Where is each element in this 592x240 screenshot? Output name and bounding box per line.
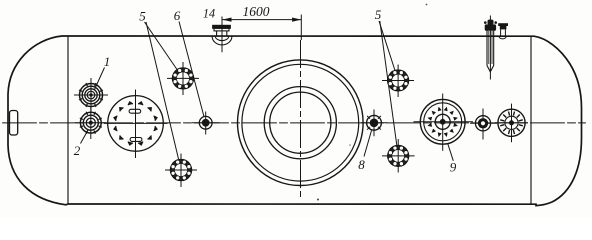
svg-text:2: 2 (74, 143, 81, 158)
leader line 6 to small nozzle (179, 22, 204, 117)
left head stub nozzle (10, 111, 18, 136)
bolted flange (5) lower left (165, 154, 197, 188)
small nozzle (6) on centerline (192, 112, 220, 135)
leader line for label 9 (448, 144, 454, 161)
bolted flange (5) upper right (382, 65, 414, 98)
level gauge tube (dipstick) top right (484, 16, 497, 80)
flange 2 (75, 107, 107, 140)
svg-text:5: 5 (375, 7, 382, 22)
svg-text:1: 1 (104, 54, 111, 69)
svg-text:5: 5 (139, 9, 146, 24)
manhole cover with bolt marks (104, 90, 168, 159)
leader line for label 2 (81, 130, 89, 144)
svg-text:6: 6 (174, 8, 181, 23)
leader line 5 to right lower flange (380, 21, 397, 145)
left head weld seam (67, 36, 69, 204)
dimension left arrowhead (222, 18, 231, 22)
tank horizontal centerline (3, 122, 586, 124)
leader line for label 1 (95, 68, 105, 90)
bolted flange (5) upper left (167, 62, 199, 95)
dimension 1600 (222, 15, 301, 41)
leader line 5 to right upper flange (379, 21, 395, 71)
leader line 5 to upper flange (145, 22, 178, 70)
right head weld seam (530, 36, 532, 204)
filler cap fitting (dark) right of dipstick (498, 23, 508, 39)
leader line 5 to lower flange (146, 22, 179, 159)
dimension right extension line (300, 15, 302, 41)
svg-text:1600: 1600 (243, 4, 270, 19)
manhole cover bottom slot (130, 138, 142, 142)
tank shell outline (8, 36, 582, 206)
gear-toothed flange right (495, 104, 528, 143)
fitting 14 (safety valve nozzle, side view) (212, 17, 232, 53)
scan specks (426, 4, 428, 6)
small nozzle 8 on centerline (361, 110, 387, 137)
manhole cover top slot (129, 109, 141, 113)
svg-text:9: 9 (450, 160, 457, 175)
dimension right arrowhead (292, 18, 301, 22)
large bolted flange 9 (414, 94, 474, 151)
svg-text:14: 14 (203, 7, 215, 21)
leader line for label 8 (364, 131, 372, 157)
central manhole (concentric rings) (237, 40, 363, 200)
bolted flange (5) lower right (382, 139, 415, 173)
flange 1 (74, 78, 108, 112)
dipstick gland (dark) (488, 20, 494, 25)
svg-text:8: 8 (358, 157, 365, 172)
small dark nozzle on centerline right (470, 109, 497, 140)
